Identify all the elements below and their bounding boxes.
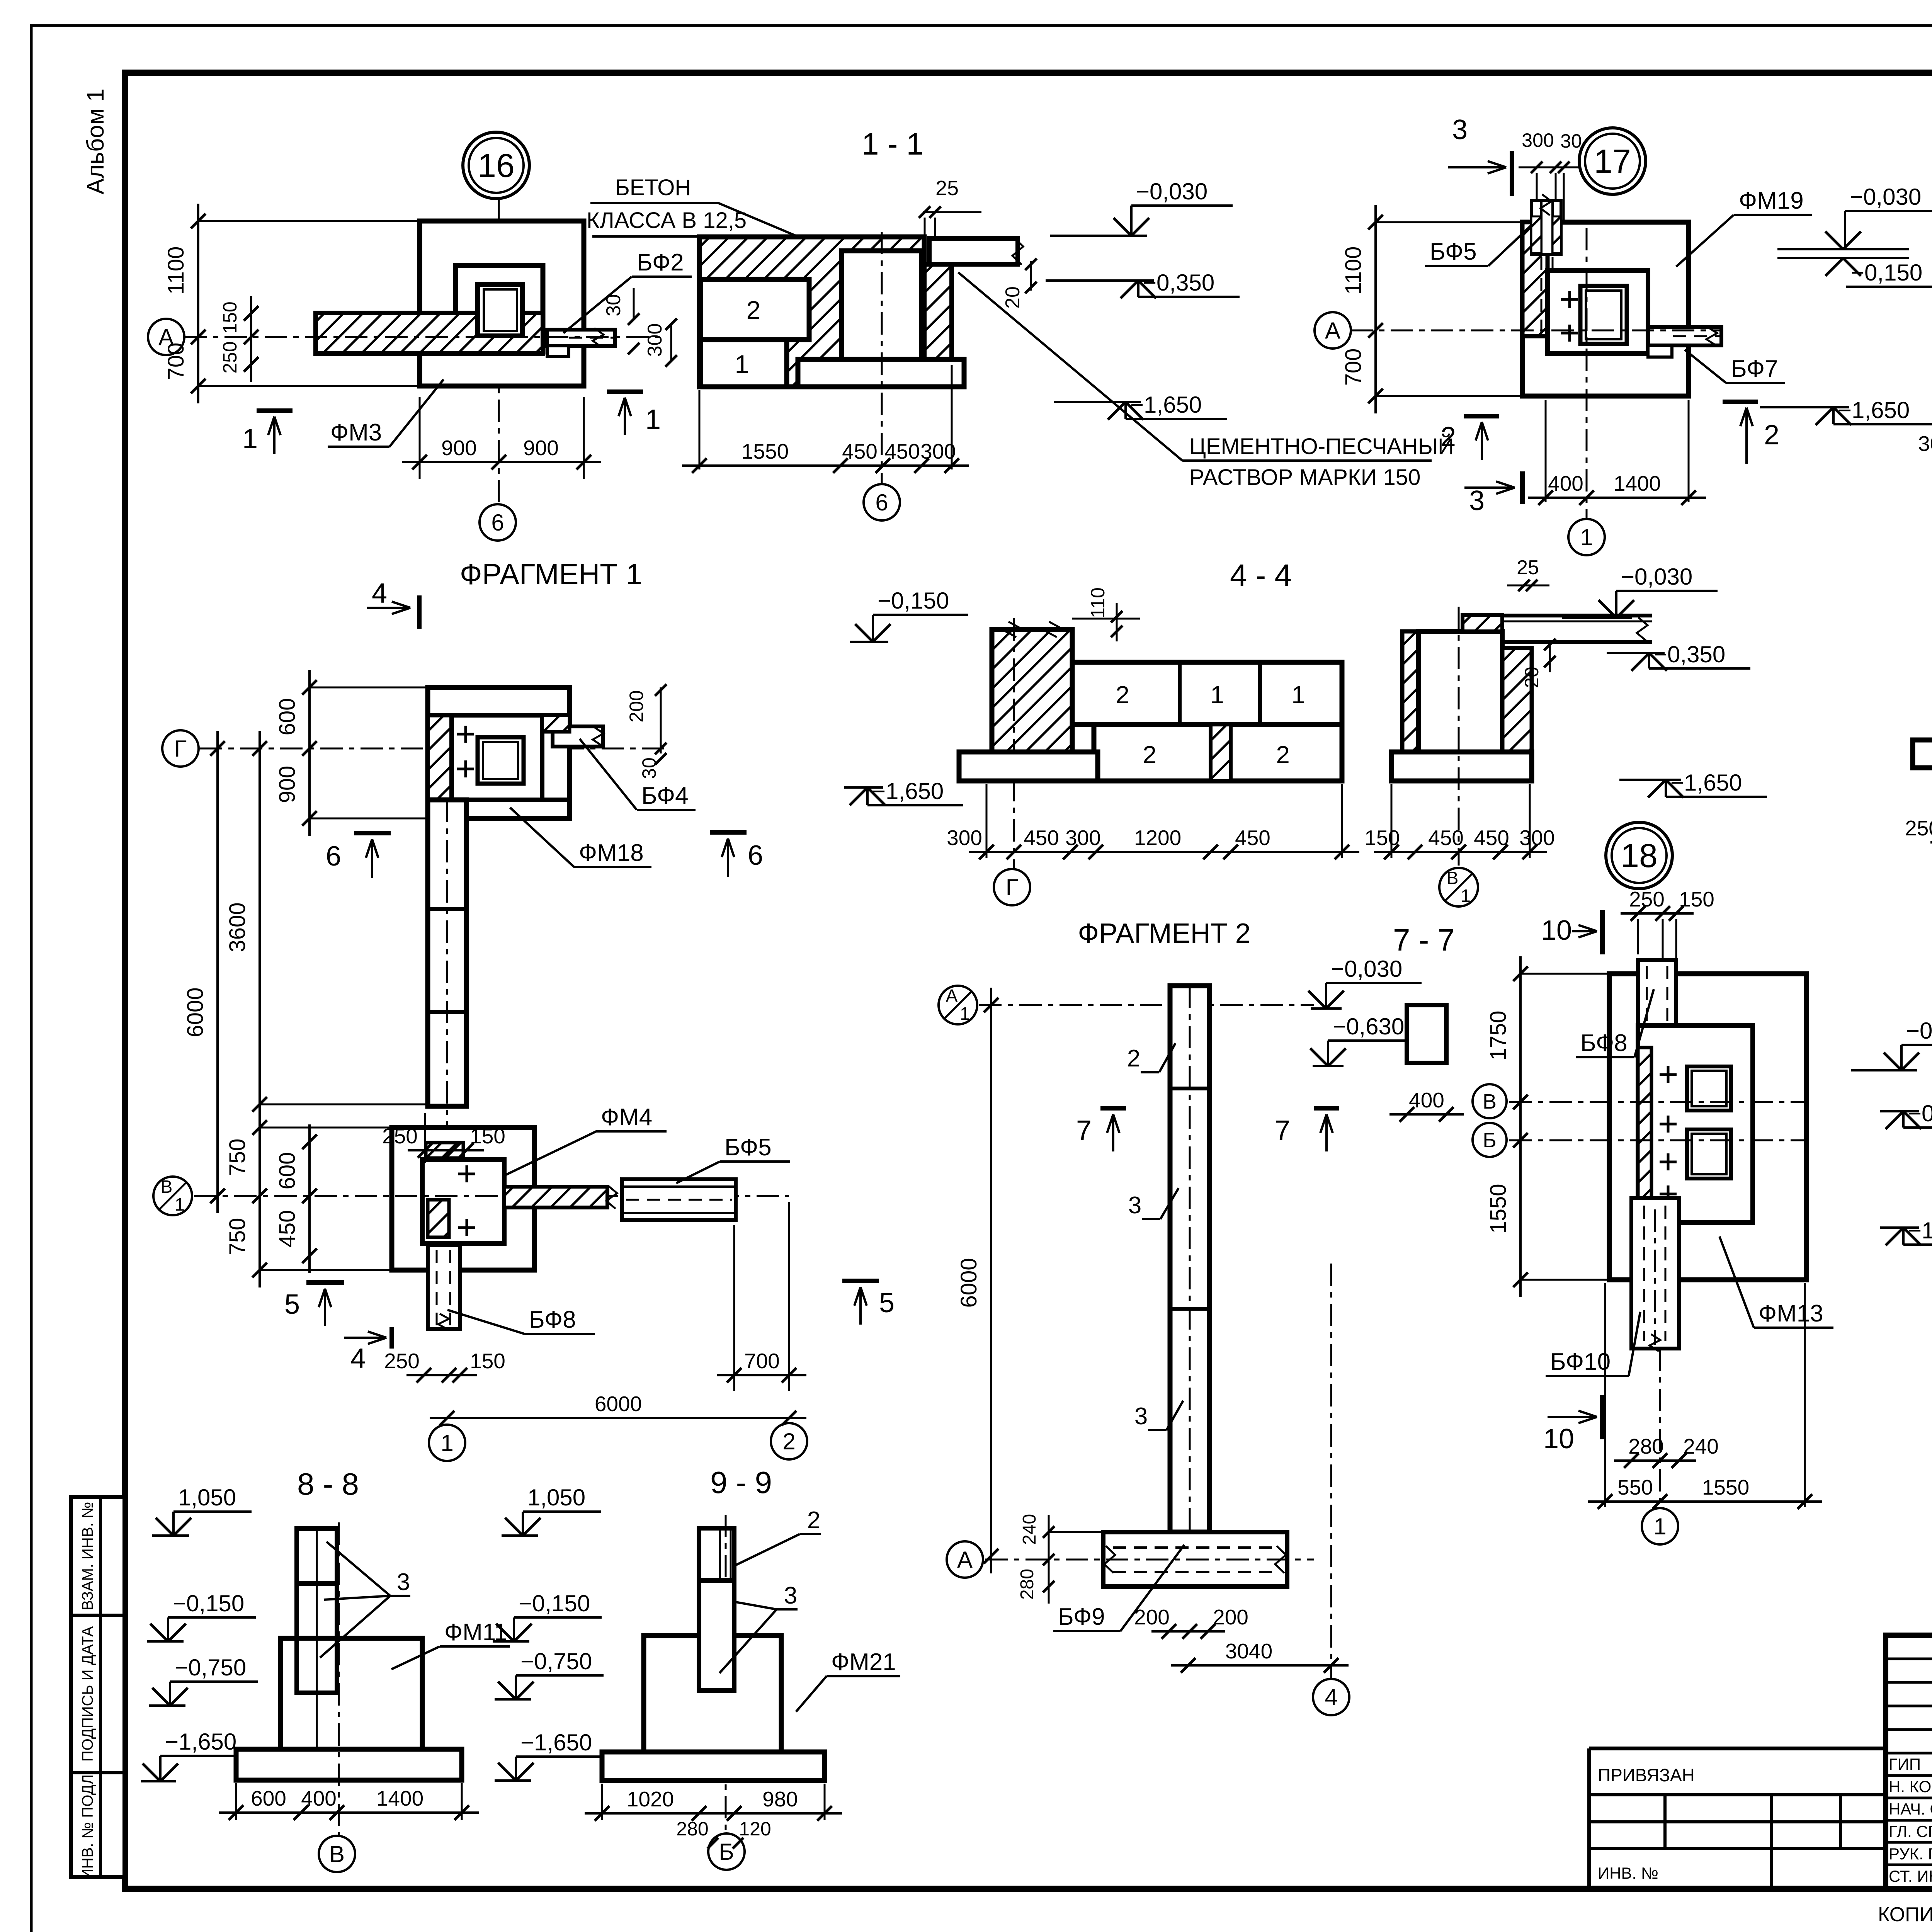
frag2 circle 4 <box>1330 1264 1332 1679</box>
cut mark 5 left <box>306 1280 344 1285</box>
section 1-1 column <box>842 251 922 362</box>
svg-text:−0,030: −0,030 <box>1331 956 1402 982</box>
svg-text:450: 450 <box>275 1210 300 1248</box>
svg-text:150: 150 <box>219 301 241 333</box>
svg-text:150: 150 <box>470 1349 505 1373</box>
svg-text:−0,030: −0,030 <box>1621 564 1692 590</box>
node 17 stub BF7 right <box>1648 327 1721 345</box>
node 16 outer foundation square <box>420 221 584 386</box>
svg-text:1: 1 <box>1580 524 1593 550</box>
svg-text:3040: 3040 <box>1225 1639 1272 1663</box>
axis A circle node17 <box>1315 312 1351 349</box>
node 17 plus marks <box>1561 298 1578 301</box>
svg-text:−1,650: −1,650 <box>1670 770 1742 796</box>
node 18 circle <box>1606 822 1672 889</box>
svg-text:120: 120 <box>739 1818 771 1840</box>
svg-text:−0,030: −0,030 <box>1136 179 1207 204</box>
svg-text:6000: 6000 <box>183 987 208 1037</box>
svg-text:300: 300 <box>1918 432 1932 456</box>
svg-text:300: 300 <box>644 323 666 357</box>
svg-text:30: 30 <box>602 294 625 316</box>
svg-text:150: 150 <box>1364 826 1400 850</box>
svg-text:250: 250 <box>384 1349 420 1373</box>
BF8 stub down <box>428 1245 460 1329</box>
svg-text:1: 1 <box>242 423 258 454</box>
svg-text:9 - 9: 9 - 9 <box>710 1465 772 1500</box>
svg-text:1400: 1400 <box>376 1786 423 1810</box>
svg-text:Г: Г <box>174 736 187 762</box>
axis A/1 circle <box>939 986 977 1024</box>
svg-text:ГИП: ГИП <box>1889 1755 1921 1773</box>
node 16 stub BF2 <box>547 330 615 346</box>
node 18 BF8 strip top <box>1638 960 1676 1039</box>
svg-text:−0,150: −0,150 <box>1851 260 1922 286</box>
node 18 left dims 1750 1550 <box>1519 956 1522 1297</box>
cut mark 4 bottom <box>389 1327 394 1349</box>
svg-text:−0,030: −0,030 <box>1850 184 1921 210</box>
wall dims 250 150 top <box>424 1113 426 1163</box>
node 18 columns <box>1687 1066 1731 1111</box>
svg-text:−0,350: −0,350 <box>1654 641 1725 667</box>
svg-text:400: 400 <box>301 1786 337 1810</box>
svg-text:В: В <box>1483 1090 1497 1113</box>
svg-text:600: 600 <box>251 1786 286 1810</box>
svg-text:6000: 6000 <box>956 1258 981 1308</box>
title block <box>1886 1635 1932 1889</box>
svg-text:6000: 6000 <box>595 1392 642 1416</box>
svg-text:2: 2 <box>1127 1045 1140 1072</box>
cut mark 1 right <box>607 389 643 394</box>
axis A circle <box>148 319 184 355</box>
node 16 bottom dims 900/900 <box>419 397 421 479</box>
svg-text:−1,650: −1,650 <box>1908 1218 1932 1243</box>
8-8 footing <box>236 1749 462 1780</box>
svg-text:450: 450 <box>842 439 878 463</box>
node 17 BF5 channel <box>1531 201 1561 255</box>
svg-text:БФ8: БФ8 <box>1580 1030 1628 1056</box>
svg-text:−1,650: −1,650 <box>165 1729 236 1755</box>
svg-text:ПОДПИСЬ И ДАТА: ПОДПИСЬ И ДАТА <box>79 1626 96 1762</box>
cut mark 6 right <box>710 830 747 835</box>
4-4 circle G <box>994 869 1030 905</box>
cut mark 10 top <box>1600 910 1605 954</box>
FM18 plan outer <box>428 687 570 818</box>
section 1-1 hatched mass <box>699 237 924 387</box>
8-8 bottom dims <box>235 1783 237 1820</box>
svg-text:280: 280 <box>676 1818 708 1840</box>
cut mark 4 top <box>417 595 422 629</box>
svg-text:−0,150: −0,150 <box>878 588 949 614</box>
svg-text:1100: 1100 <box>1341 247 1366 295</box>
section 1-1 centerline <box>881 232 883 485</box>
node 18 plus marks <box>1660 1073 1677 1076</box>
svg-text:3: 3 <box>1128 1192 1141 1219</box>
node 18 outer plan <box>1609 974 1806 1280</box>
svg-text:−0,750: −0,750 <box>175 1655 246 1680</box>
svg-text:1200: 1200 <box>1134 826 1181 850</box>
section 1-1 block 1 <box>701 340 787 387</box>
privyazan table <box>1589 1747 1886 1750</box>
svg-text:ФМ13: ФМ13 <box>1759 1300 1823 1327</box>
svg-text:30: 30 <box>638 757 660 779</box>
FM4 left dims 750 750 <box>259 1110 261 1287</box>
svg-text:−0,150: −0,150 <box>173 1590 244 1616</box>
svg-text:900: 900 <box>441 436 477 460</box>
svg-text:300: 300 <box>947 826 982 850</box>
svg-text:ФМ19: ФМ19 <box>1739 187 1804 214</box>
svg-text:7 - 7: 7 - 7 <box>1393 923 1455 957</box>
svg-text:20: 20 <box>1521 667 1543 688</box>
FM18 inner rect <box>452 715 542 800</box>
svg-text:450: 450 <box>1474 826 1509 850</box>
node 16 centerline vertical <box>498 199 500 504</box>
axis A line <box>184 336 660 338</box>
grid circle 1 node17 <box>1568 519 1605 555</box>
9-9 footing <box>602 1752 825 1781</box>
frag2 dim 6000 <box>990 988 992 1573</box>
svg-text:2: 2 <box>782 1429 795 1454</box>
svg-text:БФ10: БФ10 <box>1550 1349 1611 1375</box>
cut mark 3 top <box>1510 151 1514 196</box>
svg-text:250: 250 <box>1629 887 1665 911</box>
frag2 wall strip <box>1170 986 1209 1532</box>
svg-text:30: 30 <box>1560 130 1582 152</box>
svg-text:150: 150 <box>1679 887 1714 911</box>
svg-text:6: 6 <box>491 510 504 536</box>
node 16 hatched beam band <box>316 313 543 354</box>
section 1-1 right hatched strip <box>924 264 952 362</box>
svg-text:ПРИВЯЗАН: ПРИВЯЗАН <box>1598 1765 1695 1785</box>
node 17 left hatched strip <box>1522 222 1548 336</box>
svg-text:300: 300 <box>1519 826 1555 850</box>
FM4 inner rect <box>422 1160 504 1243</box>
svg-text:2: 2 <box>1276 741 1290 769</box>
FM4 plan outer <box>392 1128 534 1270</box>
FM18 plus marks <box>457 733 474 736</box>
svg-text:8 - 8: 8 - 8 <box>297 1467 359 1501</box>
8-8 centerline <box>338 1522 340 1836</box>
node 16 left dims 150/250 <box>250 296 252 382</box>
cut mark 6 left <box>354 831 391 835</box>
svg-text:700: 700 <box>744 1349 780 1373</box>
svg-text:ВЗАМ. ИНВ. №: ВЗАМ. ИНВ. № <box>79 1502 96 1610</box>
svg-text:1: 1 <box>735 350 749 378</box>
svg-text:550: 550 <box>1617 1475 1653 1499</box>
cut mark 3 bottom node17 <box>1520 471 1525 504</box>
svg-text:1400: 1400 <box>1614 471 1661 495</box>
svg-text:1,050: 1,050 <box>178 1485 236 1510</box>
svg-text:ФМ18: ФМ18 <box>579 840 644 866</box>
svg-text:450: 450 <box>1024 826 1059 850</box>
svg-text:240: 240 <box>1019 1514 1040 1545</box>
axis A circle frag2 <box>947 1541 983 1578</box>
svg-text:−0,630: −0,630 <box>1333 1014 1404 1039</box>
svg-text:БФ5: БФ5 <box>724 1134 772 1161</box>
svg-text:10: 10 <box>1541 915 1572 946</box>
node 18 circle 1 <box>1659 1349 1661 1507</box>
svg-text:1: 1 <box>960 1003 970 1024</box>
svg-text:−1,650: −1,650 <box>872 778 944 804</box>
svg-text:1100: 1100 <box>163 247 189 295</box>
svg-text:В: В <box>329 1841 345 1867</box>
svg-text:КОПИРОВАЛ: КОПИРОВАЛ <box>1878 1903 1932 1926</box>
svg-text:3: 3 <box>784 1582 797 1609</box>
svg-text:−0,350: −0,350 <box>1143 270 1214 296</box>
svg-text:НАЧ. ОТД.: НАЧ. ОТД. <box>1889 1800 1932 1818</box>
svg-text:3: 3 <box>1134 1403 1148 1430</box>
5-5 footing <box>1913 740 1932 768</box>
svg-text:−0,750: −0,750 <box>520 1648 592 1674</box>
svg-text:ИНВ. № ПОДЛ.: ИНВ. № ПОДЛ. <box>79 1770 96 1880</box>
svg-text:4 - 4: 4 - 4 <box>1230 558 1292 592</box>
svg-text:17: 17 <box>1594 143 1631 180</box>
svg-text:Б: Б <box>719 1839 734 1865</box>
8-8 FM11 block <box>281 1638 422 1749</box>
7-7 section rect <box>1407 1005 1446 1063</box>
svg-text:3: 3 <box>397 1569 410 1595</box>
4-4 right bottom dims <box>1391 784 1393 858</box>
svg-text:−0,350: −0,350 <box>1908 1100 1932 1126</box>
dim 700 right <box>733 1225 735 1391</box>
svg-text:1 - 1: 1 - 1 <box>862 127 923 161</box>
svg-text:200: 200 <box>1134 1605 1170 1629</box>
fragment1 left dims 600 900 <box>308 670 311 836</box>
svg-text:110: 110 <box>1087 587 1109 618</box>
4-4 bottom dims <box>986 784 988 858</box>
svg-text:4: 4 <box>1325 1684 1337 1710</box>
svg-text:2: 2 <box>807 1507 820 1534</box>
node 17 inner foundation <box>1548 270 1648 354</box>
left stamp boxes <box>71 1497 124 1877</box>
svg-text:5: 5 <box>879 1287 895 1318</box>
svg-text:Н. КОНТР.: Н. КОНТР. <box>1889 1777 1932 1796</box>
svg-text:400: 400 <box>1409 1088 1444 1112</box>
svg-text:25: 25 <box>1517 556 1539 579</box>
svg-text:1,050: 1,050 <box>527 1485 585 1510</box>
svg-text:400: 400 <box>1548 471 1583 495</box>
svg-text:БЕТОН: БЕТОН <box>615 175 691 200</box>
svg-text:750: 750 <box>225 1139 250 1176</box>
FM4 left dims 600 450 <box>308 1124 311 1273</box>
2-2 cut mark 2 <box>1723 400 1758 404</box>
svg-text:6: 6 <box>748 840 763 871</box>
svg-text:20: 20 <box>1002 286 1024 309</box>
FM4 plus marks <box>458 1173 475 1175</box>
node 16 circle <box>463 132 529 199</box>
svg-text:7: 7 <box>1275 1115 1290 1146</box>
grid circle 2 frag1 <box>771 1423 807 1459</box>
svg-text:2: 2 <box>1440 422 1456 452</box>
svg-text:ФМ4: ФМ4 <box>601 1104 652 1131</box>
svg-text:5: 5 <box>284 1289 300 1320</box>
svg-text:Альбом 1: Альбом 1 <box>82 88 109 194</box>
svg-text:3: 3 <box>1469 485 1485 516</box>
section 1-1 bottom dims <box>699 390 701 469</box>
svg-text:450: 450 <box>1235 826 1270 850</box>
svg-text:16: 16 <box>478 147 515 184</box>
svg-text:300: 300 <box>1065 826 1101 850</box>
dim 6000 bottom <box>430 1417 806 1419</box>
svg-text:РАСТВОР МАРКИ 150: РАСТВОР МАРКИ 150 <box>1189 465 1420 490</box>
svg-text:280: 280 <box>1628 1434 1664 1458</box>
svg-text:7: 7 <box>1076 1115 1092 1146</box>
node 18 BF10 strip down <box>1631 1198 1679 1349</box>
svg-text:БФ7: БФ7 <box>1731 355 1778 382</box>
cut mark 1 left <box>257 408 293 413</box>
svg-text:2: 2 <box>747 296 761 324</box>
svg-text:БФ4: БФ4 <box>641 782 689 809</box>
frag2 dims 200 200 <box>1151 1630 1225 1633</box>
4-4 right slab <box>1504 614 1652 617</box>
svg-text:1550: 1550 <box>1486 1184 1511 1233</box>
svg-text:ЦЕМЕНТНО-ПЕСЧАНЫЙ: ЦЕМЕНТНО-ПЕСЧАНЫЙ <box>1189 434 1454 459</box>
node 17 column <box>1580 286 1627 344</box>
svg-text:1: 1 <box>1653 1514 1666 1539</box>
fragment1 dim 6000 left <box>216 731 219 1213</box>
svg-text:900: 900 <box>275 766 300 803</box>
svg-text:4: 4 <box>372 578 387 609</box>
node 18 hatched strip <box>1638 1048 1651 1201</box>
svg-text:300: 300 <box>920 439 956 463</box>
svg-text:1550: 1550 <box>742 439 789 463</box>
svg-text:ИНВ. №: ИНВ. № <box>1598 1864 1658 1882</box>
BF5 beam from FM4 <box>504 1187 607 1207</box>
svg-text:В: В <box>1447 868 1459 888</box>
svg-text:−0,030: −0,030 <box>1906 1018 1932 1044</box>
7-7 dim 400 <box>1389 1113 1464 1116</box>
svg-text:450: 450 <box>884 439 920 463</box>
node 17 centerline v <box>1586 228 1588 518</box>
svg-text:1: 1 <box>645 404 661 435</box>
FM4 inner hatched <box>428 1200 449 1237</box>
svg-text:900: 900 <box>523 436 559 460</box>
9-9 circle B <box>708 1833 745 1870</box>
svg-text:В: В <box>161 1177 173 1197</box>
svg-text:1750: 1750 <box>1486 1010 1511 1060</box>
node 17 bottom dims 400 1400 <box>1545 400 1547 502</box>
node 17 left dims <box>1374 205 1377 413</box>
BF4 stub <box>553 726 603 747</box>
svg-text:ФРАГМЕНТ 2: ФРАГМЕНТ 2 <box>1078 918 1250 949</box>
svg-text:−0,150: −0,150 <box>519 1590 590 1616</box>
svg-text:БФ2: БФ2 <box>637 249 684 276</box>
svg-text:1: 1 <box>440 1430 453 1456</box>
axis G circle <box>162 730 199 767</box>
cut mark 2 node17 <box>1464 414 1499 418</box>
svg-text:280: 280 <box>1017 1569 1037 1600</box>
svg-text:250: 250 <box>382 1124 418 1148</box>
svg-text:700: 700 <box>163 343 189 380</box>
svg-text:25: 25 <box>935 177 959 200</box>
svg-text:СТ. ИНЖ.: СТ. ИНЖ. <box>1889 1867 1932 1885</box>
grid circle 1 frag1 <box>429 1425 465 1461</box>
8-8 circle V <box>319 1836 355 1872</box>
4-4 right part: hatched strips and column <box>1402 631 1418 752</box>
svg-text:ФРАГМЕНТ 1: ФРАГМЕНТ 1 <box>460 558 642 591</box>
svg-text:6: 6 <box>326 841 341 872</box>
svg-text:КЛАССА В 12,5: КЛАССА В 12,5 <box>587 208 747 233</box>
node 18 dims 550 1550 <box>1604 1283 1606 1507</box>
svg-text:3600: 3600 <box>225 902 250 952</box>
svg-text:1: 1 <box>1291 681 1305 709</box>
FM18 column <box>478 737 524 784</box>
node 18 dims 250 150 <box>1637 919 1639 954</box>
cut mark 7 left <box>1100 1106 1126 1111</box>
svg-text:А: А <box>957 1547 973 1573</box>
svg-text:1020: 1020 <box>627 1787 674 1811</box>
svg-text:200: 200 <box>626 690 647 722</box>
svg-text:Б: Б <box>1483 1129 1496 1152</box>
svg-text:600: 600 <box>275 1152 300 1190</box>
svg-text:А: А <box>1325 318 1340 344</box>
8-8 column blocks <box>297 1529 337 1583</box>
svg-text:1: 1 <box>1210 681 1224 709</box>
FM18 top band <box>428 713 570 718</box>
node 17 outer plan <box>1522 222 1689 396</box>
svg-text:6: 6 <box>875 490 888 515</box>
grid circle 6 <box>480 504 516 541</box>
svg-text:250: 250 <box>1905 816 1932 840</box>
frag2 dim 3040 <box>1171 1664 1349 1667</box>
node 16 left dims 1100/700 <box>197 204 199 403</box>
4-4 footing <box>959 752 1098 781</box>
svg-text:−1,650: −1,650 <box>520 1730 592 1755</box>
9-9 bottom dims <box>601 1784 603 1820</box>
9-9 column <box>699 1528 734 1580</box>
svg-text:4: 4 <box>350 1343 366 1374</box>
svg-text:−1,650: −1,650 <box>1838 397 1910 423</box>
cut mark 7 right <box>1314 1106 1339 1111</box>
node 18 dims 280 240 <box>1614 1459 1696 1462</box>
BF8 dims 250 150 <box>406 1374 477 1376</box>
FM4 top hatched piece <box>426 1143 463 1158</box>
svg-text:ФМ3: ФМ3 <box>330 419 382 446</box>
cut mark 5 right <box>842 1279 879 1283</box>
svg-text:БФ5: БФ5 <box>1430 238 1477 265</box>
svg-text:2: 2 <box>1764 420 1779 451</box>
node 17 circle <box>1579 128 1646 194</box>
FM18 bottom band line <box>452 798 570 802</box>
svg-text:1: 1 <box>175 1194 185 1214</box>
svg-text:600: 600 <box>275 698 300 736</box>
fragment1 dim 3600 <box>259 731 261 1122</box>
svg-text:ГЛ. СПЕЦ.: ГЛ. СПЕЦ. <box>1889 1822 1932 1840</box>
svg-text:2: 2 <box>1143 741 1156 769</box>
section 1-1 footing <box>798 359 964 387</box>
svg-text:БФ9: БФ9 <box>1058 1604 1105 1630</box>
4-4 hatched pier <box>992 629 1072 752</box>
4-4 blocks row2 <box>1094 724 1342 781</box>
svg-text:А: А <box>946 986 958 1006</box>
axes B and B node18 <box>1473 1084 1507 1118</box>
grid circle 6 section <box>864 484 900 520</box>
svg-text:БФ8: БФ8 <box>529 1306 576 1333</box>
BF9 beam <box>1103 1532 1287 1587</box>
svg-text:250: 250 <box>219 341 241 373</box>
4-4 right footing <box>1391 752 1532 781</box>
section 1-1 floor slab <box>929 238 1018 264</box>
svg-text:ФМ21: ФМ21 <box>831 1649 896 1675</box>
svg-text:РУК. ГР.: РУК. ГР. <box>1889 1845 1932 1863</box>
svg-text:2: 2 <box>1116 681 1129 709</box>
section 1-1 block 2 <box>701 279 809 340</box>
9-9 FM21 block <box>644 1636 781 1752</box>
svg-text:18: 18 <box>1621 837 1658 874</box>
svg-text:150: 150 <box>470 1124 505 1148</box>
node 16 column <box>478 284 522 336</box>
svg-text:300: 300 <box>1522 129 1554 151</box>
svg-text:1: 1 <box>1461 886 1471 906</box>
